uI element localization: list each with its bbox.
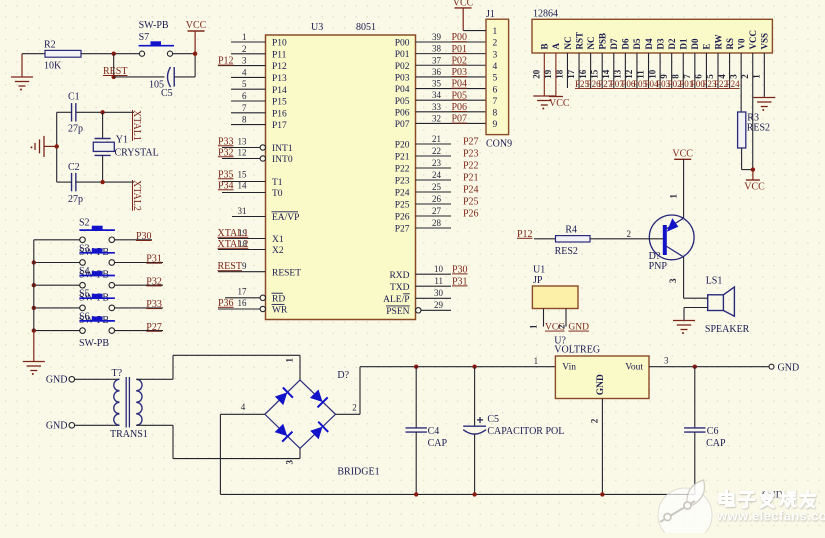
svg-text:C4: C4 <box>428 426 440 437</box>
junction <box>600 492 604 496</box>
svg-text:P06: P06 <box>395 108 410 118</box>
svg-text:P00: P00 <box>452 32 468 43</box>
power VCC <box>453 0 474 31</box>
lcd pin 16 NC <box>578 37 601 90</box>
lcd pin 8 D1 <box>670 38 693 89</box>
wire ground rail <box>220 493 694 495</box>
svg-text:VCC: VCC <box>453 0 474 9</box>
svg-text:RW: RW <box>713 34 723 49</box>
svg-text:GND: GND <box>596 374 606 395</box>
svg-text:P05: P05 <box>452 90 468 101</box>
pin 1 <box>285 358 295 363</box>
svg-text:21: 21 <box>432 134 441 144</box>
svg-text:P11: P11 <box>272 50 287 60</box>
svg-text:C2: C2 <box>68 162 80 173</box>
junction <box>751 167 755 171</box>
pin 38 P01 <box>395 44 486 61</box>
pin 2 P11 <box>231 44 287 61</box>
pin 19 X1 <box>218 228 284 245</box>
svg-text:7: 7 <box>493 97 498 107</box>
svg-text:35: 35 <box>432 79 442 89</box>
lcd pin 3 V0 <box>728 38 746 112</box>
speaker LS1 <box>705 275 750 335</box>
wire <box>22 53 45 55</box>
pin 23 P22 <box>395 158 479 175</box>
svg-text:1: 1 <box>285 358 295 363</box>
ground <box>673 321 695 335</box>
svg-text:17: 17 <box>238 287 248 297</box>
switch S4 <box>79 271 115 288</box>
wire <box>114 330 163 332</box>
svg-text:P16: P16 <box>272 109 287 119</box>
svg-text:25: 25 <box>432 182 442 192</box>
wire <box>34 239 80 241</box>
switch S3 <box>79 248 115 265</box>
junction <box>100 180 104 184</box>
svg-text:P12: P12 <box>517 229 533 240</box>
pin 3 P12 <box>218 56 287 73</box>
svg-text:P25: P25 <box>395 201 410 211</box>
pin 25 P24 <box>395 182 479 199</box>
svg-text:WR: WR <box>272 306 288 316</box>
wire <box>136 355 300 380</box>
svg-text:P25: P25 <box>463 197 479 208</box>
svg-text:SPEAKER: SPEAKER <box>705 324 750 335</box>
pin 28 P27 <box>395 218 451 235</box>
svg-text:P34: P34 <box>218 180 234 191</box>
svg-text:1: 1 <box>493 27 498 37</box>
pin 12 INT0 <box>218 147 293 165</box>
svg-text:XTAL1: XTAL1 <box>131 110 142 141</box>
pin 31 EA/VP <box>232 206 299 223</box>
svg-text:GND: GND <box>46 421 68 432</box>
label S5 <box>79 289 90 300</box>
pin 35 P04 <box>395 79 486 96</box>
svg-text:P35: P35 <box>218 169 234 180</box>
svg-text:8: 8 <box>493 109 498 119</box>
svg-text:EA/VP: EA/VP <box>272 213 299 223</box>
pin 9 RESET <box>218 261 302 278</box>
svg-text:P27: P27 <box>395 225 410 235</box>
svg-text:P25: P25 <box>575 79 590 89</box>
svg-text:12864: 12864 <box>533 9 558 20</box>
junction REST <box>112 52 116 56</box>
svg-text:26: 26 <box>432 194 442 204</box>
svg-text:C5: C5 <box>161 88 173 99</box>
svg-text:P20: P20 <box>395 141 410 151</box>
svg-text:8: 8 <box>242 115 247 125</box>
svg-text:1: 1 <box>529 324 539 329</box>
svg-text:VCC: VCC <box>744 181 765 192</box>
lcd pin 12 D5 <box>624 38 647 89</box>
junction <box>32 260 36 264</box>
svg-text:20: 20 <box>532 69 542 79</box>
svg-text:33: 33 <box>432 102 442 112</box>
svg-text:RESET: RESET <box>272 268 301 278</box>
capacitor C2 <box>68 162 83 205</box>
pin 1 <box>534 356 539 366</box>
junction <box>55 144 59 148</box>
svg-text:P01: P01 <box>452 44 468 55</box>
svg-text:1: 1 <box>534 356 539 366</box>
wire pin2 <box>336 367 361 415</box>
resistor R3 <box>738 112 770 148</box>
svg-text:P05: P05 <box>395 97 410 107</box>
svg-text:P31: P31 <box>146 254 162 265</box>
switch S5 <box>79 294 115 311</box>
svg-text:S2: S2 <box>79 218 90 229</box>
svg-text:C5: C5 <box>487 414 499 425</box>
power VCC <box>186 20 207 54</box>
svg-text:9: 9 <box>242 261 247 271</box>
svg-text:7: 7 <box>242 103 247 113</box>
svg-text:U3: U3 <box>311 22 323 33</box>
svg-text:2: 2 <box>242 44 247 54</box>
svg-text:RST: RST <box>574 32 584 50</box>
svg-text:T1: T1 <box>272 178 283 188</box>
svg-text:ALE/P: ALE/P <box>383 295 409 305</box>
svg-text:P33: P33 <box>218 136 234 147</box>
svg-text:39: 39 <box>432 32 442 42</box>
pin 8 P17 <box>231 115 287 132</box>
lcd pin 17 RST <box>566 32 589 89</box>
net label P27 <box>146 322 162 333</box>
svg-text:P07: P07 <box>452 114 468 125</box>
svg-text:D1: D1 <box>679 38 689 49</box>
svg-text:10K: 10K <box>44 61 62 72</box>
watermark text <box>720 491 815 508</box>
switch S2 <box>79 226 115 243</box>
ground <box>31 136 57 157</box>
pin 16 WR <box>218 298 288 316</box>
svg-text:4: 4 <box>493 62 498 72</box>
ground <box>533 96 555 110</box>
svg-text:S3: S3 <box>79 243 90 254</box>
svg-text:1: 1 <box>669 194 679 199</box>
svg-text:SW-PB: SW-PB <box>79 338 109 349</box>
svg-text:CON9: CON9 <box>486 139 512 150</box>
svg-text:CAP: CAP <box>706 438 726 449</box>
switch S6 <box>79 317 115 334</box>
svg-text:23: 23 <box>432 158 442 168</box>
svg-text:D3: D3 <box>655 38 665 49</box>
transistor D? PNP <box>649 215 695 272</box>
svg-text:TXD: TXD <box>390 283 410 293</box>
svg-text:XTAL1: XTAL1 <box>218 228 249 239</box>
svg-text:BRIDGE1: BRIDGE1 <box>337 467 379 478</box>
wire <box>173 53 196 55</box>
svg-text:P07: P07 <box>395 120 410 130</box>
label BRIDGE1 <box>337 467 379 478</box>
wire <box>75 424 120 426</box>
lcd pin 20 B <box>532 43 550 95</box>
svg-text:P02: P02 <box>452 55 468 66</box>
svg-text:S6: S6 <box>79 311 90 322</box>
svg-text:RD: RD <box>272 294 285 304</box>
svg-text:T0: T0 <box>272 189 283 199</box>
svg-text:P03: P03 <box>395 73 410 83</box>
lcd pin 11 D4 <box>636 38 659 89</box>
svg-text:P06: P06 <box>452 102 468 113</box>
watermark url <box>716 509 825 524</box>
capacitor C4 <box>406 367 448 495</box>
svg-text:3: 3 <box>493 50 498 60</box>
pin 17 RD <box>225 287 285 305</box>
crystal Y1 <box>93 112 158 182</box>
net label P31 <box>146 254 162 265</box>
svg-text:37: 37 <box>432 55 442 65</box>
ic U3 8051 <box>266 22 416 320</box>
svg-text:RS: RS <box>725 38 735 50</box>
pin 3 <box>285 460 295 465</box>
svg-text:P27: P27 <box>146 322 162 333</box>
svg-text:13: 13 <box>238 136 248 146</box>
svg-text:D4: D4 <box>644 38 654 49</box>
wire <box>683 257 685 298</box>
pin 1 <box>669 194 679 199</box>
svg-text:D0: D0 <box>690 38 700 49</box>
label SW-PB <box>79 292 109 303</box>
ground <box>23 331 45 375</box>
svg-text:VOLTREG: VOLTREG <box>554 345 600 356</box>
pin 7 P16 <box>231 103 287 120</box>
svg-text:X1: X1 <box>272 235 284 245</box>
pin 26 P25 <box>395 194 479 211</box>
junction <box>32 283 36 287</box>
capacitor C5 polarized <box>463 367 564 495</box>
wire <box>174 54 195 77</box>
wire <box>114 262 163 264</box>
svg-text:NC: NC <box>586 37 596 50</box>
pin 39 P00 <box>395 32 486 49</box>
svg-text:SW-PB: SW-PB <box>139 20 169 31</box>
junction <box>414 492 418 496</box>
label SW-PB <box>79 247 109 258</box>
lcd pin 19 A <box>543 43 561 97</box>
lcd pin 9 D2 <box>659 38 682 89</box>
svg-text:28: 28 <box>432 218 442 228</box>
svg-text:P32: P32 <box>146 276 162 287</box>
svg-text:6: 6 <box>493 85 498 95</box>
net label REST <box>103 66 127 77</box>
pin 33 P06 <box>395 102 486 119</box>
svg-text:V0: V0 <box>736 38 746 49</box>
net label VCC <box>545 323 565 333</box>
svg-text:B: B <box>540 43 550 49</box>
net label P33 <box>146 299 162 310</box>
lcd pin 18 NC <box>555 37 573 89</box>
svg-text:5: 5 <box>242 79 247 89</box>
watermark hidden net text <box>762 491 783 501</box>
svg-text:15: 15 <box>238 169 248 179</box>
svg-text:5: 5 <box>493 74 498 84</box>
svg-text:C6: C6 <box>707 426 719 437</box>
svg-text:C1: C1 <box>68 92 80 103</box>
svg-text:27p: 27p <box>68 194 83 205</box>
wire pin4 <box>220 402 265 494</box>
svg-text:P00: P00 <box>395 39 410 49</box>
regulator U? VOLTREG <box>554 335 649 398</box>
pin 32 P07 <box>395 113 486 130</box>
svg-text:GND: GND <box>568 323 589 333</box>
pin 36 P03 <box>395 67 486 84</box>
resistor R4 <box>534 225 663 257</box>
svg-text:8051: 8051 <box>356 22 376 33</box>
label SW-PB <box>79 315 109 326</box>
label D? <box>337 370 349 381</box>
svg-text:P32: P32 <box>218 147 234 158</box>
pin 30 ALE/P <box>383 288 451 305</box>
pin 1 P10 <box>231 32 287 49</box>
net label XTAL2 <box>131 180 142 211</box>
svg-text:2: 2 <box>557 324 567 329</box>
svg-text:Y1: Y1 <box>116 135 128 146</box>
lcd pin 14 D7 <box>601 38 624 89</box>
power VCC <box>549 97 570 109</box>
svg-text:12: 12 <box>238 147 247 157</box>
junction <box>100 110 104 114</box>
svg-text:E: E <box>702 43 712 49</box>
capacitor C5 <box>149 67 174 99</box>
wire positive rail <box>360 366 555 368</box>
junction <box>32 328 36 332</box>
pin 37 P02 <box>395 55 486 72</box>
svg-text:Vin: Vin <box>562 363 576 373</box>
svg-text:P04: P04 <box>452 79 468 90</box>
svg-text:14: 14 <box>238 180 248 190</box>
net label P30 <box>136 231 152 242</box>
svg-text:P17: P17 <box>272 121 287 131</box>
junction <box>693 365 697 369</box>
svg-text:X2: X2 <box>272 246 284 256</box>
pin 6 P15 <box>231 91 287 108</box>
svg-text:P23: P23 <box>395 177 410 187</box>
jumper U1 JP <box>532 265 578 309</box>
svg-text:CRYSTAL: CRYSTAL <box>115 148 159 159</box>
svg-text:P36: P36 <box>218 298 234 309</box>
svg-text:R4: R4 <box>565 225 577 236</box>
svg-text:R2: R2 <box>44 40 56 51</box>
lcd pin 13 D6 <box>613 38 636 89</box>
lcd pin 5 RW <box>705 34 728 89</box>
svg-text:P22: P22 <box>463 161 479 172</box>
junction <box>472 365 476 369</box>
svg-text:VCC: VCC <box>549 98 570 109</box>
svg-text:P21: P21 <box>395 153 410 163</box>
svg-text:VCC: VCC <box>186 20 207 31</box>
capacitor C6 <box>684 367 726 495</box>
svg-text:3: 3 <box>242 56 247 66</box>
svg-text:P27: P27 <box>463 137 479 148</box>
wire <box>684 308 708 321</box>
connector J1 CON9 <box>486 9 512 150</box>
svg-text:3: 3 <box>664 356 669 366</box>
lcd pin 10 D3 <box>647 38 670 89</box>
svg-text:2: 2 <box>590 418 600 423</box>
wire <box>114 76 165 78</box>
svg-text:P14: P14 <box>272 86 287 96</box>
net label P32 <box>146 276 162 287</box>
junction <box>472 492 476 496</box>
label SW-PB <box>79 338 109 349</box>
wire <box>81 53 140 55</box>
svg-text:1: 1 <box>242 32 247 42</box>
svg-text:GND: GND <box>46 375 68 386</box>
label S2 <box>79 218 90 229</box>
svg-text:34: 34 <box>432 90 442 100</box>
wire <box>136 425 300 458</box>
svg-text:P04: P04 <box>395 85 410 95</box>
lcd pin 1 VSS <box>752 33 770 97</box>
port GND <box>769 362 799 373</box>
svg-text:11: 11 <box>434 276 443 286</box>
power VCC <box>672 149 693 218</box>
resistor R2 <box>44 40 81 72</box>
wire <box>34 330 80 332</box>
pin 3 <box>664 356 669 366</box>
label S3 <box>79 243 90 254</box>
svg-text:A: A <box>551 43 561 50</box>
svg-text:TRANS1: TRANS1 <box>110 429 148 440</box>
svg-text:22: 22 <box>432 146 441 156</box>
watermark logo <box>658 480 712 538</box>
svg-text:INT0: INT0 <box>272 155 293 165</box>
svg-text:3: 3 <box>285 460 295 465</box>
transformer T? TRANS1 <box>110 368 148 440</box>
svg-text:P21: P21 <box>463 173 479 184</box>
label S6 <box>79 311 90 322</box>
svg-text:PSB: PSB <box>598 33 608 50</box>
svg-text:NC: NC <box>563 37 573 50</box>
svg-text:38: 38 <box>432 44 442 54</box>
svg-text:36: 36 <box>432 67 442 77</box>
ground <box>11 54 33 91</box>
svg-text:30: 30 <box>434 288 444 298</box>
svg-text:6: 6 <box>242 91 247 101</box>
svg-text:27p: 27p <box>68 124 83 135</box>
junction <box>414 365 418 369</box>
svg-text:D6: D6 <box>621 38 631 49</box>
junction <box>32 306 36 310</box>
svg-text:VSS: VSS <box>760 33 770 50</box>
svg-text:VCC: VCC <box>672 149 693 160</box>
svg-text:P12: P12 <box>218 56 234 67</box>
wire <box>33 240 35 332</box>
svg-text:RXD: RXD <box>389 271 409 281</box>
port GND <box>46 375 75 386</box>
svg-text:P10: P10 <box>272 39 287 49</box>
label S4 <box>79 266 90 277</box>
pin 13 INT1 <box>218 136 293 154</box>
junction <box>112 75 116 79</box>
pin 2 wire <box>590 399 603 495</box>
svg-text:2: 2 <box>627 229 632 239</box>
wire output rail <box>649 366 769 368</box>
svg-text:REST: REST <box>218 261 242 272</box>
svg-text:P30: P30 <box>452 264 468 275</box>
pin 4 P13 <box>231 67 287 84</box>
svg-text:S5: S5 <box>79 289 90 300</box>
pin 18 X2 <box>218 239 284 256</box>
svg-text:Vout: Vout <box>625 363 643 373</box>
svg-text:D?: D? <box>337 370 349 381</box>
svg-text:P30: P30 <box>136 231 152 242</box>
junction <box>193 52 197 56</box>
svg-text:XTAL2: XTAL2 <box>131 180 142 211</box>
wire <box>56 112 58 182</box>
net label GND <box>568 323 589 333</box>
svg-text:31: 31 <box>238 206 247 216</box>
